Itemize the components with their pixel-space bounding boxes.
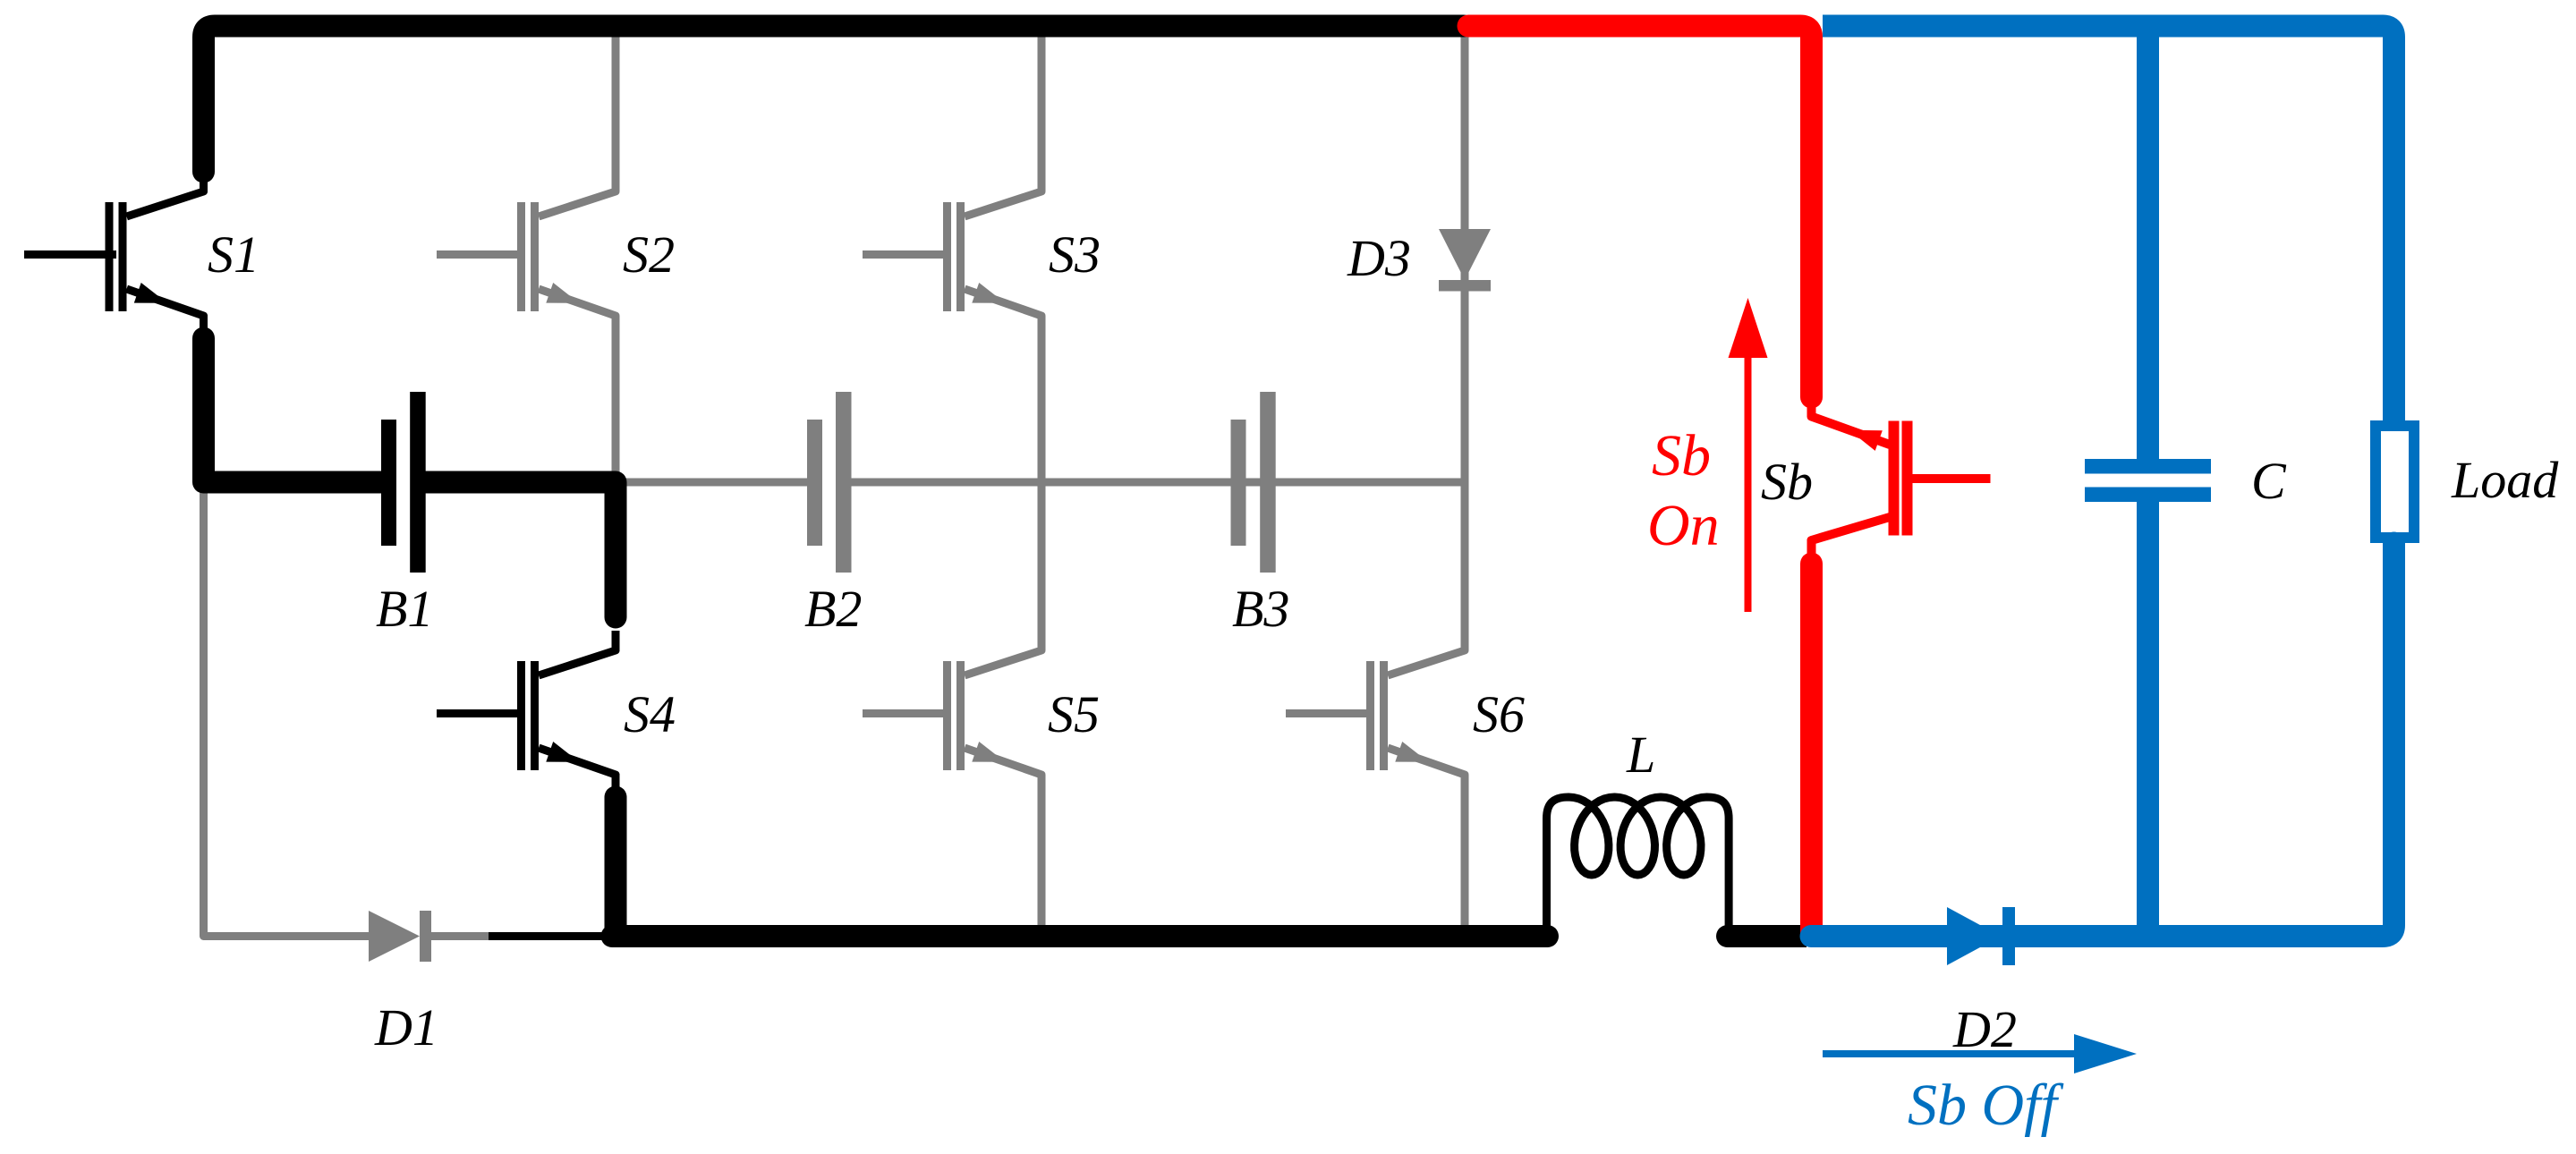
svg-text:S2: S2 [623,225,675,284]
diode D2 cathode bar [2002,907,2015,965]
wire: bottom rail thick black S4 junction to inductor [612,925,1548,947]
diode D3 triangle [1439,229,1491,280]
current arrow Sb Off (blue) head [2074,1034,2137,1073]
transistor S3 emitter lead (bottom diagonal) [965,289,1041,333]
svg-text:B3: B3 [1232,580,1289,638]
wire: S2 emitter vertical to battery row [612,316,620,482]
svg-text:On: On [1647,493,1720,558]
transistor S5 emitter arrow [972,742,1005,762]
wire: S3 collector vertical to top rail [1038,26,1046,191]
inductor L coil [1547,797,1730,937]
load resistor rectangle [2376,426,2414,538]
wire: S1 emitter terminal down + battery row to B1 [204,338,382,482]
wire: bottom rail thick black inductor to red junction [1728,925,1741,947]
svg-text:Sb: Sb [1652,423,1711,488]
svg-text:Load: Load [2451,451,2559,509]
diode D3 cathode bar [1439,280,1491,292]
transistor S2 collector lead (top diagonal) [539,175,616,216]
transistor Sb emitter lead (top diagonal) [1812,400,1891,445]
wire: S2 collector vertical to top rail [612,26,620,191]
transistor S1 collector lead (top diagonal) [127,175,204,216]
transistor Sb emitter arrow [1849,430,1883,451]
capacitor C bottom plate [2085,488,2211,503]
transistor S3 gate bars [943,202,951,311]
transistor S2 gate bars [517,202,525,311]
svg-text:D3: D3 [1347,229,1411,287]
svg-text:S5: S5 [1048,685,1100,743]
transistor S3 gate lead [863,250,951,259]
wire: left branch gray vertical (B1 junction down to D1 anode lead) [204,482,370,937]
wire: gray segment after D1 cathode [431,932,489,940]
transistor S4 emitter lead (bottom diagonal) [539,748,616,792]
wire: S3 emitter / S5 collector vertical through battery row [1038,316,1046,650]
wire: capacitor C top lead from top rail [2137,26,2159,459]
wire: top rail blue segment with right corner down to Load [1823,26,2394,420]
svg-text:B2: B2 [804,580,862,638]
wire: Sb collector stub [1807,539,1816,558]
transistor S2 emitter arrow [546,283,579,303]
current arrow Sb Off (blue, rightward) shaft [1823,1050,2076,1057]
diode D1 cathode bar [420,911,431,962]
transistor S4 collector lead (top diagonal) [539,634,616,675]
svg-text:S4: S4 [624,685,676,743]
wire: S1 collector stub [200,175,208,192]
transistor S4 emitter arrow [546,742,579,762]
transistor S6 gate lead [1286,709,1374,717]
wire: battery row gray segment B2 to B3 [852,479,1469,487]
svg-text:S1: S1 [208,225,259,284]
wire: S4 emitter stub [612,774,620,793]
transistor S6 emitter lead (bottom diagonal) [1388,748,1465,792]
transistor S6 gate bars [1366,661,1374,770]
capacitor C top plate [2085,459,2211,474]
battery battery B1 positive (long) plate [410,392,426,573]
wire: battery row gray segment B1 junction to B2 [616,479,807,487]
transistor S1 gate bars [106,202,114,311]
battery battery B1 negative (short) plate [381,420,396,546]
wire: Sb emitter stub [1807,401,1816,417]
wire: top rail (black segment) with left corner down to S1 collector [204,26,1465,172]
transistor S6 collector lead (top diagonal) [1388,634,1465,675]
current arrow Sb On (red, upward) shaft [1745,356,1752,612]
current arrow Sb On (red) head [1729,298,1768,358]
wire: D3 anode line from top rail / S6 collector vertical [1461,26,1469,650]
svg-text:C: C [2251,452,2287,510]
wire: battery row B1 to S4 junction + S4 collector terminal [426,482,616,617]
transistor S5 gate bars [943,661,951,770]
wire: S5 emitter vertical to bottom rail [1038,775,1046,937]
wire: thin black segment D1 to S4 junction [489,932,605,940]
transistor Sb gate bars [1889,421,1900,536]
transistor S2 emitter lead (bottom diagonal) [539,289,616,333]
transistor S5 collector lead (top diagonal) [965,634,1041,675]
svg-text:S3: S3 [1049,225,1101,284]
wire: capacitor C bottom lead to bottom rail [2137,502,2159,937]
wire: S1 gate lead extension [24,250,116,259]
wire: S1 emitter stub [200,315,208,333]
transistor S1 gate lead [25,250,114,259]
battery B3 positive (long) plate [1260,392,1276,573]
transistor S5 gate lead [863,709,951,717]
transistor S6 emitter arrow [1395,742,1428,762]
wire: S4 collector stub [612,631,620,651]
transistor S4 gate bars [517,661,525,770]
wire: top rail red segment with corner down to Sb emitter terminal [1468,26,1812,397]
diode D2 triangle [1947,907,2001,965]
transistor S3 emitter arrow [972,283,1005,303]
battery B3 negative (short) plate [1231,420,1246,546]
wire: Sb collector terminal down to bottom rail [1800,564,1823,644]
battery B2 positive (long) plate [836,392,852,573]
diode D1 triangle [369,911,420,962]
transistor Sb collector lead (bottom diagonal) [1812,517,1891,557]
wire: S6 emitter vertical to bottom rail [1461,775,1469,937]
svg-text:D2: D2 [1952,1000,2017,1058]
svg-text:L: L [1626,725,1655,784]
svg-text:B1: B1 [376,580,433,638]
wire: S4 emitter terminal to bottom rail [605,797,627,937]
transistor S4 gate lead [437,709,525,717]
svg-text:D1: D1 [374,998,438,1056]
transistor S1 emitter arrow [134,283,167,303]
svg-text:S6: S6 [1473,685,1525,743]
svg-text:Sb: Sb [1761,453,1813,511]
transistor S5 emitter lead (bottom diagonal) [965,748,1041,792]
battery B2 negative (short) plate [807,420,822,546]
transistor Sb gate lead [1913,474,1991,483]
svg-text:Sb Off: Sb Off [1908,1073,2064,1138]
transistor S3 collector lead (top diagonal) [965,175,1041,216]
wire: Load bottom lead + bottom rail blue segment [1811,543,2394,937]
transistor S1 emitter lead (bottom diagonal) [127,289,204,333]
transistor S2 gate lead [437,250,525,259]
